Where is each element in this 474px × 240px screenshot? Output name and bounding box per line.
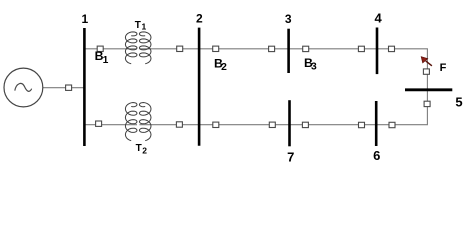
wire: bottom line T2 right lead to bus2 bbox=[140, 124, 201, 126]
svg-text:3: 3 bbox=[285, 12, 292, 26]
breaker square right of T2 bbox=[176, 122, 182, 127]
bus 7 bbox=[288, 100, 291, 146]
wire: top line bus1 to transformer T1 left lead bbox=[85, 48, 137, 50]
breaker square right of bus 2 (bottom) bbox=[213, 122, 219, 127]
wire: top line T1 to bus4 to corner, down right side, bottom back to bus6 bbox=[140, 49, 428, 125]
svg-text:2: 2 bbox=[221, 62, 227, 73]
svg-text:2: 2 bbox=[142, 146, 147, 156]
breaker square left of bus 4 bbox=[358, 46, 364, 51]
breaker square right of bus 7 bbox=[302, 122, 308, 127]
breaker square right of bus 1 (bottom) bbox=[96, 121, 102, 126]
svg-text:1: 1 bbox=[142, 21, 147, 31]
svg-text:1: 1 bbox=[82, 12, 89, 26]
svg-text:5: 5 bbox=[455, 94, 462, 109]
fault arrow F (red) bbox=[421, 57, 432, 66]
breaker square left of bus 6 bbox=[359, 122, 365, 127]
transformer T1 bbox=[125, 32, 151, 64]
svg-text:F: F bbox=[440, 62, 447, 74]
breaker square right of T1 bbox=[177, 46, 183, 51]
breaker square above bus 5 bbox=[423, 69, 429, 74]
bus 3 bbox=[287, 29, 290, 73]
breaker square below bus 5 bbox=[424, 101, 430, 106]
svg-text:2: 2 bbox=[196, 12, 203, 26]
wire: generator to bus 1 bbox=[43, 87, 84, 89]
bus 2 bbox=[198, 28, 201, 146]
generator G bbox=[4, 68, 43, 107]
breaker square left of bus 7 bbox=[269, 122, 275, 127]
svg-text:4: 4 bbox=[374, 10, 382, 25]
breaker square left of bus 3 bbox=[269, 46, 275, 51]
bus 6 bbox=[375, 101, 378, 146]
bus 4 bbox=[376, 28, 379, 75]
wire: bottom line bus2 to bus6 bbox=[200, 124, 377, 126]
svg-text:T: T bbox=[135, 20, 141, 31]
bus 1 bbox=[83, 28, 86, 146]
breaker B3 square bbox=[303, 46, 309, 51]
generator sine symbol bbox=[15, 83, 32, 91]
breaker square right of bus 6 bbox=[389, 122, 395, 127]
bus 5 (horizontal) bbox=[405, 88, 452, 91]
svg-text:7: 7 bbox=[287, 149, 294, 164]
wire: bottom line bus1 to transformer T2 left lead bbox=[85, 124, 137, 126]
svg-text:T: T bbox=[136, 143, 142, 154]
transformer T2 bbox=[125, 103, 151, 141]
svg-text:6: 6 bbox=[373, 148, 380, 163]
svg-text:1: 1 bbox=[103, 55, 109, 66]
breaker B2 square bbox=[213, 46, 219, 51]
breaker B1 square bbox=[97, 46, 103, 51]
breaker square on generator lead bbox=[66, 85, 72, 90]
svg-text:3: 3 bbox=[311, 61, 317, 72]
breaker square right of bus 4 bbox=[389, 46, 395, 51]
